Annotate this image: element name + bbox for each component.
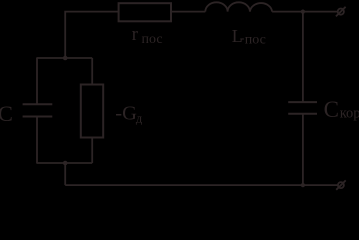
terminal top right	[336, 7, 346, 17]
svg-text:C: C	[324, 97, 339, 122]
wire capacitor C bottom lead	[36, 117, 38, 164]
capacitor Ckor	[288, 102, 317, 114]
inductor L_pos	[205, 2, 272, 11]
resistor r_pos box	[119, 3, 171, 21]
label C (left capacitor)	[0, 101, 13, 126]
capacitor C	[23, 104, 53, 116]
wire bottom node to bottom rail	[64, 163, 66, 185]
wire inductor to top terminal	[272, 11, 338, 13]
label C_kor (right capacitor)	[324, 97, 359, 122]
junction top right node	[301, 10, 305, 14]
junction bottom right node	[301, 183, 305, 187]
svg-text:пос: пос	[142, 32, 163, 47]
terminal bottom right	[336, 180, 346, 189]
label L_pos	[232, 26, 266, 47]
label r_pos	[132, 25, 163, 47]
wire Ckor top lead	[302, 12, 304, 103]
node bar top (C parallel -Gd)	[36, 57, 92, 59]
conductance box -Gd	[81, 85, 103, 138]
wire Ckor bottom lead	[302, 114, 304, 185]
node bar bottom	[36, 162, 92, 164]
junction bottom node B	[63, 161, 68, 166]
wire -Gd top lead	[91, 58, 93, 85]
svg-text:-G: -G	[115, 103, 137, 125]
svg-text:кор: кор	[340, 106, 359, 122]
wire top-left: node to top rail	[65, 12, 118, 58]
label -Gd	[115, 103, 143, 126]
svg-text:д: д	[136, 112, 143, 126]
svg-text:пос: пос	[245, 32, 266, 47]
bottom rail wire	[65, 184, 338, 186]
svg-text:r: r	[132, 25, 138, 45]
wire capacitor C top lead	[36, 58, 38, 104]
svg-text:C: C	[0, 101, 13, 126]
junction top node A	[63, 56, 68, 61]
wire resistor to inductor	[171, 11, 205, 13]
wire -Gd bottom lead	[91, 138, 93, 164]
